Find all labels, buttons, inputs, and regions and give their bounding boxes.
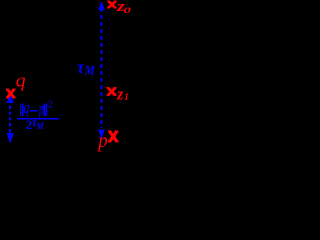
svg-text:0: 0 [124, 5, 131, 14]
svg-text:q: q [16, 71, 26, 92]
svg-text:M: M [35, 121, 45, 131]
svg-text:q: q [23, 99, 30, 117]
svg-text:M: M [84, 63, 95, 78]
svg-text:2: 2 [48, 100, 53, 111]
svg-text:p: p [38, 100, 44, 120]
svg-text:z: z [116, 85, 124, 104]
svg-text:p: p [96, 129, 107, 152]
svg-text:1: 1 [124, 93, 129, 103]
